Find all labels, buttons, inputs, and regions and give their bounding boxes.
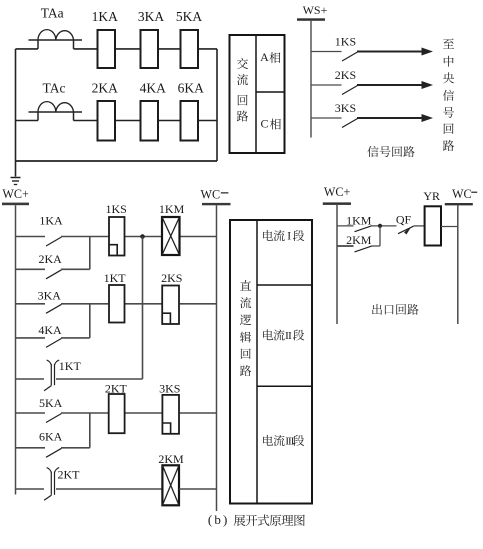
svg-text:TAa: TAa — [41, 6, 64, 21]
svg-text:1KA: 1KA — [92, 9, 118, 24]
svg-text:1KM: 1KM — [159, 202, 185, 216]
svg-text:4KA: 4KA — [38, 323, 62, 337]
svg-text:TAc: TAc — [43, 80, 66, 95]
svg-text:1KT: 1KT — [59, 359, 82, 373]
svg-text:2KM: 2KM — [158, 452, 184, 466]
svg-text:1KM: 1KM — [346, 214, 372, 228]
svg-text:1KT: 1KT — [104, 271, 127, 285]
svg-text:A: A — [260, 50, 269, 64]
svg-text:2KT: 2KT — [58, 468, 81, 482]
svg-text:WC+: WC+ — [2, 187, 29, 201]
svg-text:3KA: 3KA — [138, 9, 164, 24]
svg-text:3KS: 3KS — [159, 382, 180, 396]
svg-text:I: I — [287, 230, 291, 242]
svg-text:1KS: 1KS — [335, 35, 356, 49]
svg-text:5KA: 5KA — [176, 9, 202, 24]
svg-text:2KA: 2KA — [92, 80, 118, 95]
svg-text:III: III — [285, 435, 294, 447]
svg-text:WC: WC — [452, 187, 472, 201]
svg-text:WC+: WC+ — [324, 185, 351, 199]
svg-text:QF: QF — [396, 212, 412, 226]
svg-text:WC: WC — [200, 188, 220, 202]
svg-text:(b): (b) — [208, 512, 230, 527]
svg-text:YR: YR — [423, 189, 440, 203]
svg-text:3KA: 3KA — [38, 289, 62, 303]
svg-text:4KA: 4KA — [140, 80, 166, 95]
svg-text:2KS: 2KS — [161, 271, 182, 285]
svg-text:5KA: 5KA — [39, 396, 63, 410]
svg-text:2KA: 2KA — [39, 252, 63, 266]
svg-text:2KS: 2KS — [335, 68, 356, 82]
svg-text:II: II — [285, 330, 292, 342]
svg-text:2KT: 2KT — [105, 382, 128, 396]
svg-text:WS+: WS+ — [303, 3, 328, 17]
svg-text:2KM: 2KM — [346, 233, 372, 247]
svg-text:6KA: 6KA — [39, 430, 63, 444]
svg-text:3KS: 3KS — [335, 101, 356, 115]
svg-text:C: C — [260, 117, 268, 131]
svg-text:1KA: 1KA — [39, 214, 63, 228]
svg-text:1KS: 1KS — [106, 202, 127, 216]
svg-text:6KA: 6KA — [178, 80, 204, 95]
